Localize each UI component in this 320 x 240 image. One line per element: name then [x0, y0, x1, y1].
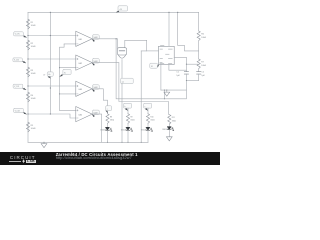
- resistor R2: [26, 40, 29, 50]
- node tag V_1.25: [13, 84, 26, 90]
- svg-text:U1: U1: [151, 66, 153, 68]
- svg-text:V_1.25: V_1.25: [14, 86, 19, 88]
- junction at 50.4,35.5: [50, 35, 51, 36]
- junction at 44,142.3: [43, 142, 44, 143]
- ground G3: [166, 137, 172, 141]
- svg-text:10kΩ: 10kΩ: [31, 128, 36, 130]
- wire branch2 top: [127, 108, 129, 114]
- svg-text:b: b: [125, 106, 126, 108]
- junction at 122,142.3: [121, 142, 122, 143]
- footer bar: [0, 152, 220, 165]
- op-amp OA1: [76, 31, 92, 46]
- svg-text:1N4148: 1N4148: [162, 129, 168, 131]
- wire tap 3: [28, 85, 76, 87]
- junction at 186.4,80.5: [186, 80, 187, 81]
- wire branch3 top: [147, 108, 149, 114]
- wire bottom rail: [28, 141, 148, 143]
- junction at 116.1,38.8: [115, 38, 116, 39]
- wire IC bottom pin B: [169, 65, 187, 71]
- wire bus B to op3: [60, 93, 76, 95]
- wire bus B to op4: [60, 109, 76, 111]
- wire IC bottom pin A: [160, 65, 162, 91]
- svg-text:1N4148: 1N4148: [100, 130, 106, 132]
- junction at 50.4,12.4: [50, 12, 51, 13]
- resistor R9: [126, 114, 129, 124]
- resistor R6: [197, 31, 200, 41]
- junction at 169,12.4: [168, 12, 169, 13]
- svg-text:a: a: [107, 108, 108, 110]
- resistor R1: [26, 19, 29, 29]
- resistor R10: [146, 114, 149, 124]
- junction at 166.8,90.1: [166, 90, 167, 91]
- capacitor C1: [185, 64, 187, 71]
- wire bus A: [49, 12, 51, 114]
- svg-text:V_0.63: V_0.63: [15, 110, 20, 112]
- wire branch3 mid: [147, 123, 149, 127]
- wire branch2 mid: [127, 123, 129, 127]
- wire ground2 rail: [161, 89, 187, 91]
- flag at OA3 output: [92, 85, 99, 92]
- wire buzzer output: [121, 60, 123, 79]
- wire caps top tie: [186, 63, 198, 65]
- node tag Vs: [60, 69, 71, 76]
- node tag Vin: [47, 72, 53, 78]
- svg-text:V_2.50: V_2.50: [14, 60, 19, 62]
- node tag LED branch 2: [123, 103, 131, 110]
- junction at 164.4,90.1: [164, 90, 165, 91]
- svg-text:Vs: Vs: [64, 72, 66, 74]
- junction at 177.7,12.4: [177, 12, 178, 13]
- LED D4: [167, 127, 173, 131]
- junction at 28,59: [27, 58, 28, 59]
- flag at OA2 output: [92, 59, 99, 66]
- footer title text: [56, 152, 138, 157]
- resistor R11: [168, 115, 171, 125]
- junction at 107.5,142.3: [107, 142, 108, 143]
- CircuitLab logo: [10, 155, 36, 160]
- svg-text:10kΩ: 10kΩ: [31, 46, 36, 48]
- svg-text:R11: R11: [172, 117, 175, 119]
- junction at 59.5,67.7: [59, 67, 60, 68]
- wire right feed: [178, 12, 199, 51]
- junction at 59.5,93.9: [59, 93, 60, 94]
- wire op2 output: [92, 63, 168, 115]
- junction at 28,114: [27, 113, 28, 114]
- wire tap 2: [28, 58, 76, 60]
- wire bus B: [60, 44, 65, 110]
- buzzer BZ1: [116, 39, 118, 48]
- junction at 50.4,114: [50, 113, 51, 114]
- ground G2 stub: [166, 90, 168, 92]
- junction at 141.2,142.3: [141, 142, 142, 143]
- op-amp OA2: [76, 55, 92, 70]
- node tag V_3.75: [14, 32, 27, 38]
- wire to IC left pin: [147, 50, 159, 52]
- flag on buzzer output: [121, 78, 134, 84]
- svg-text:OA1: OA1: [78, 38, 82, 41]
- wire op1 output: [92, 39, 186, 99]
- wire IC right pin: [174, 57, 186, 64]
- node tag V_0.63: [14, 108, 27, 114]
- wire bus B to op2: [60, 67, 76, 69]
- wire tap 1: [28, 35, 76, 37]
- LED D2: [126, 127, 132, 131]
- wire tap 4: [28, 114, 76, 118]
- svg-text:OA2: OA2: [78, 62, 82, 65]
- capacitor C2: [197, 72, 201, 75]
- wire bus B to op1: [64, 43, 76, 45]
- svg-text:V_3.75: V_3.75: [15, 34, 20, 36]
- LED D3: [146, 127, 152, 131]
- IC U1: [168, 12, 170, 46]
- svg-text:R8: R8: [110, 116, 112, 118]
- wire branch4 bottom: [168, 130, 170, 137]
- junction at 186.4,64.2: [186, 64, 187, 65]
- wire divider chain: [27, 12, 29, 142]
- flag at OA4 output: [92, 110, 99, 117]
- wire branch2 bottom: [127, 130, 129, 142]
- footer url text: [56, 156, 132, 160]
- svg-text:1N4148: 1N4148: [141, 130, 147, 132]
- ground G2: [164, 92, 170, 96]
- svg-text:10kΩ: 10kΩ: [31, 73, 36, 75]
- wire caps bottom tie: [186, 80, 198, 82]
- flag at OA1 output: [92, 35, 99, 42]
- svg-text:10kΩ: 10kΩ: [31, 98, 36, 100]
- wire branch3 riser: [140, 51, 142, 142]
- junction at 28,35.5: [27, 35, 28, 36]
- ground G1: [41, 144, 47, 148]
- node tag LED branch 1: [106, 106, 112, 113]
- wire ground stub: [43, 142, 45, 143]
- wire buzzer flag down: [121, 84, 123, 143]
- wire branch4 mid: [168, 124, 170, 127]
- svg-text:10kΩ: 10kΩ: [201, 37, 206, 39]
- junction at 164.4,98.8: [164, 98, 165, 99]
- LED D1: [106, 127, 112, 131]
- wire op4 output: [92, 114, 101, 142]
- resistor R8: [106, 114, 109, 124]
- wire op3 output: [92, 89, 107, 114]
- wire top power rail: [28, 11, 199, 13]
- junction at 50.4,88: [50, 87, 51, 88]
- resistor R5: [26, 122, 29, 132]
- op-amp OA3: [76, 81, 92, 96]
- svg-text:R9: R9: [130, 116, 132, 118]
- op-amp OA4: [76, 107, 92, 122]
- flag at IC: [150, 63, 159, 68]
- resistor R4: [26, 92, 29, 102]
- wire branch3 bottom: [147, 130, 149, 142]
- node tag V_2.50: [13, 58, 26, 63]
- junction at 128,142.3: [127, 142, 128, 143]
- svg-text:R10: R10: [150, 116, 153, 118]
- wire ground2 drop: [163, 90, 165, 99]
- svg-text:10kΩ: 10kΩ: [201, 65, 206, 67]
- node tag +5V rail: [117, 6, 128, 12]
- svg-text:10kΩ: 10kΩ: [31, 25, 36, 27]
- resistor R7: [197, 59, 200, 69]
- wire branch1 mid: [107, 123, 109, 127]
- svg-text:OA3: OA3: [78, 88, 82, 91]
- svg-text:Vin: Vin: [48, 74, 50, 76]
- node tag LED branch 3: [144, 103, 152, 110]
- svg-text:OA4: OA4: [78, 114, 82, 117]
- resistor R3: [26, 67, 29, 77]
- svg-text:1N4148: 1N4148: [121, 130, 127, 132]
- junction at 28,86: [27, 85, 28, 86]
- wire branch1 bottom: [107, 130, 109, 142]
